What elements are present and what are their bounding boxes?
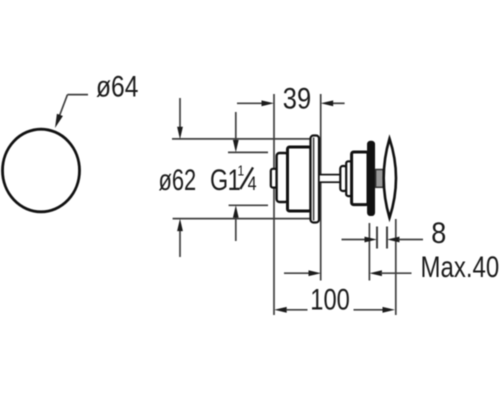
svg-text:G: G — [210, 163, 228, 196]
svg-text:8: 8 — [431, 217, 446, 251]
svg-text:39: 39 — [283, 82, 311, 115]
svg-text:ø62: ø62 — [159, 163, 197, 197]
svg-text:ø64: ø64 — [96, 69, 138, 103]
svg-text:Max.40: Max.40 — [421, 249, 500, 283]
svg-text:4: 4 — [248, 173, 257, 195]
svg-text:1: 1 — [238, 162, 245, 179]
svg-text:100: 100 — [310, 283, 350, 316]
